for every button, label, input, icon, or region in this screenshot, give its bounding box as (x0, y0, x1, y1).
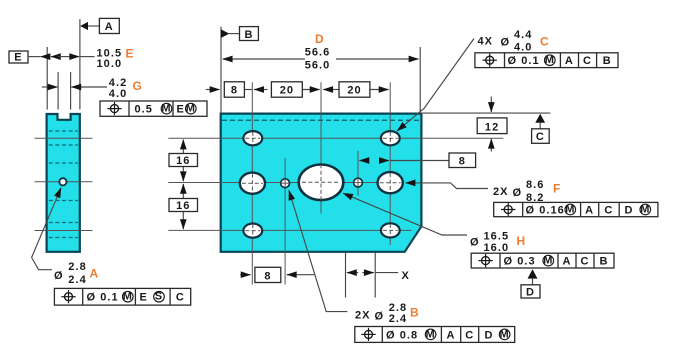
hole center marks (245, 137, 260, 139)
svg-text:8: 8 (459, 155, 466, 167)
svg-text:2.8: 2.8 (68, 261, 86, 273)
svg-text:Ø 0.1: Ø 0.1 (508, 55, 540, 67)
svg-text:D: D (485, 329, 494, 341)
svg-text:S: S (155, 291, 163, 303)
svg-text:M: M (161, 103, 171, 115)
feature control frame B 2X holes position (355, 327, 515, 343)
leader 2X 8.6 holes (406, 183, 489, 189)
svg-text:C: C (176, 292, 185, 304)
svg-text:E: E (14, 51, 22, 63)
svg-text:16: 16 (176, 155, 190, 167)
svg-text:C: C (536, 131, 545, 143)
column centerline tiny left hole (284, 158, 286, 285)
datum B flag (221, 29, 230, 38)
column centerline center hole (320, 82, 322, 213)
8 / 20 / 20 basic dims (206, 89, 220, 91)
svg-text:Ø 0.16: Ø 0.16 (526, 204, 565, 216)
side view part body with top slot (47, 114, 80, 252)
svg-text:4.0: 4.0 (514, 42, 532, 54)
svg-text:4X: 4X (478, 35, 494, 47)
svg-text:M: M (543, 255, 553, 267)
feature control frame A hole position (54, 288, 190, 305)
svg-text:Ø 0.3: Ø 0.3 (504, 256, 536, 268)
8 dim right (tiny hole offset) (359, 160, 367, 162)
svg-text:E: E (177, 103, 185, 115)
tiny hole right (354, 178, 363, 187)
svg-text:C: C (540, 34, 549, 48)
corner hole bottom-right (381, 223, 400, 237)
svg-text:0.5: 0.5 (135, 103, 153, 115)
row centerline top (168, 137, 503, 139)
svg-text:2.8: 2.8 (389, 302, 407, 314)
row centerline middle (168, 182, 404, 184)
svg-text:G: G (133, 79, 142, 93)
svg-text:20: 20 (280, 85, 294, 97)
svg-text:M: M (565, 203, 575, 215)
svg-text:D: D (625, 204, 634, 216)
svg-text:8: 8 (264, 270, 271, 282)
hidden hole lines (side view) (49, 130, 78, 132)
corner hole top-right (381, 131, 400, 145)
svg-text:Ø: Ø (470, 236, 480, 248)
front view plate with chamfer (221, 114, 422, 252)
svg-text:D: D (526, 287, 535, 299)
12 dim (490, 97, 492, 113)
corner hole bottom-left (243, 224, 262, 238)
svg-text:4.0: 4.0 (109, 88, 127, 100)
extension line left face (46, 47, 48, 110)
big center hole (299, 165, 344, 201)
extension line plate right (419, 47, 421, 113)
svg-text:12: 12 (485, 121, 499, 133)
column centerline tiny right hole (357, 151, 359, 196)
svg-text:C: C (604, 204, 613, 216)
datum D flag (528, 269, 538, 278)
corner hole top-left (243, 131, 262, 145)
hidden slot line (front view) (222, 119, 420, 121)
tiny hole left (281, 179, 290, 188)
svg-text:A: A (105, 21, 114, 33)
svg-text:2.4: 2.4 (68, 274, 86, 286)
dimension 4.2/4.0 arrows (42, 86, 58, 88)
X dim arrows (347, 272, 358, 274)
svg-text:M: M (545, 54, 555, 66)
svg-text:56.0: 56.0 (305, 59, 331, 71)
mid hole left (240, 173, 265, 194)
svg-text:20: 20 (347, 85, 361, 97)
small hole in side view (59, 178, 66, 185)
extension line slot left (57, 72, 59, 110)
svg-text:8: 8 (231, 85, 238, 97)
svg-text:M: M (425, 328, 435, 340)
svg-text:Ø: Ø (375, 310, 385, 322)
svg-text:C: C (581, 256, 590, 268)
svg-text:A: A (565, 55, 574, 67)
svg-text:M: M (123, 291, 133, 303)
svg-text:2X: 2X (355, 309, 371, 321)
leader center hole (343, 193, 467, 235)
datum A flag (80, 22, 88, 30)
16 dims left of front view (182, 140, 184, 154)
svg-text:Ø 0.8: Ø 0.8 (386, 329, 418, 341)
svg-text:C: C (583, 55, 592, 67)
svg-text:Ø 0.1: Ø 0.1 (87, 292, 119, 304)
leader 2X 2.8 holes (289, 190, 348, 311)
svg-text:H: H (517, 234, 526, 248)
svg-text:A: A (585, 204, 594, 216)
svg-text:M: M (499, 328, 509, 340)
leader 4X holes (397, 39, 474, 132)
svg-text:A: A (563, 256, 572, 268)
svg-text:B: B (410, 305, 419, 319)
bottom 8 dim (240, 274, 250, 276)
svg-text:M: M (186, 103, 196, 115)
feature control frame F 2X holes position (494, 202, 658, 216)
svg-text:2.4: 2.4 (389, 313, 407, 325)
svg-text:X: X (402, 270, 410, 282)
svg-text:Ø: Ø (513, 187, 523, 199)
svg-text:2X: 2X (493, 186, 509, 198)
svg-text:16: 16 (176, 200, 190, 212)
dimension 56.6/56.0 (223, 58, 305, 60)
X dim extension lines (345, 253, 347, 298)
svg-text:F: F (553, 182, 560, 196)
feature control frame H center hole position (471, 253, 614, 268)
svg-text:4.4: 4.4 (514, 29, 532, 41)
mid hole right (378, 172, 403, 193)
column centerline left holes (251, 82, 253, 284)
svg-text:E: E (126, 46, 134, 60)
column centerline right holes (389, 82, 391, 245)
feature control frame G slot position (100, 101, 207, 116)
svg-text:B: B (245, 29, 254, 41)
svg-text:16.0: 16.0 (484, 242, 510, 254)
extension line right face / datum A (79, 19, 81, 109)
svg-text:16.5: 16.5 (484, 231, 510, 243)
dimension 10.5/10.0 arrows (51, 56, 58, 58)
extension line plate left / datum B (220, 27, 222, 114)
svg-text:Ø: Ø (54, 270, 64, 282)
svg-text:A: A (90, 267, 99, 281)
svg-text:B: B (603, 55, 612, 67)
svg-text:D: D (315, 32, 324, 46)
svg-text:C: C (465, 329, 474, 341)
svg-text:Ø: Ø (501, 36, 511, 48)
svg-text:8.6: 8.6 (526, 179, 544, 191)
svg-text:B: B (600, 256, 609, 268)
svg-text:10.0: 10.0 (97, 58, 123, 70)
extension line slot right (70, 72, 72, 110)
svg-text:A: A (447, 329, 456, 341)
datum C flag (535, 114, 545, 123)
svg-text:M: M (640, 203, 650, 215)
svg-text:56.6: 56.6 (305, 47, 331, 59)
row centerline bottom (168, 229, 411, 231)
side view centerlines (35, 137, 93, 139)
top edge extension right (421, 112, 550, 114)
datum E box and leader (9, 51, 28, 63)
leader for 2.8/2.4 hole (side view) (32, 188, 61, 270)
svg-text:E: E (140, 292, 148, 304)
feature control frame C 4X holes position (475, 53, 618, 68)
